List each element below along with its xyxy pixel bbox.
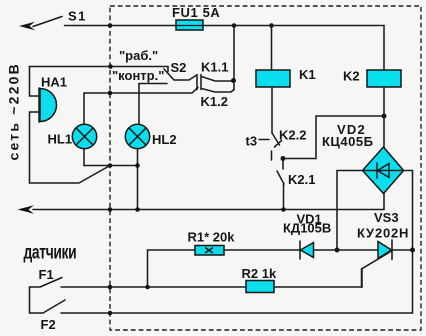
wire: HL1/HL2 bottom tie <box>84 165 138 167</box>
svg-text:КД105В: КД105В <box>283 221 331 236</box>
svg-text:K1: K1 <box>299 67 316 82</box>
resistor R2 <box>242 266 277 293</box>
thyristor VS3 <box>357 210 413 287</box>
wire: bridge right to right rail <box>404 171 413 314</box>
wire: gate riser <box>361 269 363 287</box>
wire: R1 to VD1 <box>224 249 300 251</box>
svg-text:S2: S2 <box>171 60 187 75</box>
switch S1 <box>19 9 87 31</box>
svg-text:HL2: HL2 <box>152 132 177 147</box>
svg-text:K2.1: K2.1 <box>288 172 315 187</box>
node: dot return at dashed border <box>108 207 113 212</box>
svg-text:K2.2: K2.2 <box>279 128 306 143</box>
lamp HL2 <box>125 124 176 209</box>
node: dot top wire to K1 coil <box>269 23 274 28</box>
svg-text:VS3: VS3 <box>374 210 399 225</box>
svg-text:"контр.": "контр." <box>112 68 164 83</box>
svg-text:F2: F2 <box>41 317 56 332</box>
node: dot F1 wire at dashed border <box>108 285 113 290</box>
wire: HL2 top lead <box>138 84 140 125</box>
node: dot at bridge top branch <box>382 114 387 119</box>
svg-text:K2: K2 <box>343 69 360 84</box>
svg-text:сеть ~220В: сеть ~220В <box>6 62 22 160</box>
dashed enclosure border <box>110 6 421 330</box>
fuse FU1 <box>172 5 220 30</box>
relay coil K2 <box>343 26 401 88</box>
wire: bridge left to VD1 row <box>337 171 363 251</box>
svg-text:K1.2: K1.2 <box>201 94 228 109</box>
svg-text:КУ202Н: КУ202Н <box>357 226 409 241</box>
diode VD1 <box>283 212 331 260</box>
wire: контр throw stub <box>139 83 167 85</box>
svg-text:КЦ405Б: КЦ405Б <box>322 134 373 149</box>
wire: K2.2 to bridge top <box>283 116 384 159</box>
bridge rectifier VD2 <box>322 87 404 194</box>
contact K2.1 <box>277 159 315 210</box>
wire: HL1 top wire to K1.2 <box>84 88 198 94</box>
node: dot right rail at VS3 row <box>410 248 415 253</box>
contact K1.1/K1.2 bars <box>197 75 201 90</box>
wire: top phase line <box>65 25 385 27</box>
node: dot return K2.1 branch <box>281 207 286 212</box>
contact K1.2 path to node <box>202 89 235 93</box>
buzzer HA1 <box>30 67 111 184</box>
node: dot at dashed border y93 <box>108 91 113 96</box>
svg-text:HL1: HL1 <box>48 132 73 147</box>
wire: R2 to VS3 gate <box>274 286 362 288</box>
wire: сеть wire to S2 <box>30 67 169 72</box>
svg-text:HA1: HA1 <box>41 75 67 90</box>
node: dot K1.1 output <box>231 78 236 83</box>
node: dot K2.2 output <box>281 156 286 161</box>
contact K2.2 with t3 <box>246 87 307 160</box>
wire: VD1 to VS3 <box>314 249 379 251</box>
sensor switch F1 <box>30 267 247 287</box>
sensor switch F2 <box>30 287 413 332</box>
contact K1.1 path to node <box>202 77 234 82</box>
svg-text:датчики: датчики <box>24 241 77 263</box>
wire: node down from top wire <box>233 26 235 91</box>
lamp HL1 <box>48 93 97 166</box>
node: dot F1 wire to R1 branch <box>145 285 150 290</box>
node: dot top wire at dashed border <box>108 23 113 28</box>
node: dot bridge minus to diode row <box>335 248 340 253</box>
node: dot HL2 bottom <box>135 163 140 168</box>
svg-text:S1: S1 <box>68 9 87 24</box>
svg-text:R2 1k: R2 1k <box>242 266 277 281</box>
resistor R1 <box>148 230 236 288</box>
node: dot lamp tie at dashed border <box>108 163 113 168</box>
switch S2 lever <box>164 69 196 80</box>
node: dot at dashed border y67 <box>108 64 113 69</box>
svg-text:"раб.": "раб." <box>119 48 158 63</box>
node: dot return HL2 branch <box>135 207 140 212</box>
node: dot F2 wire at dashed border <box>108 311 113 316</box>
wire: return line with arrow <box>18 194 385 214</box>
node: dot top wire to K1.1 branch <box>232 23 237 28</box>
svg-text:F1: F1 <box>39 267 54 282</box>
svg-text:K1.1: K1.1 <box>201 60 228 75</box>
svg-text:R1* 20k: R1* 20k <box>188 230 236 245</box>
relay coil K1 <box>256 26 316 88</box>
svg-text:t3: t3 <box>246 134 258 149</box>
svg-text:FU1 5A: FU1 5A <box>172 5 220 20</box>
